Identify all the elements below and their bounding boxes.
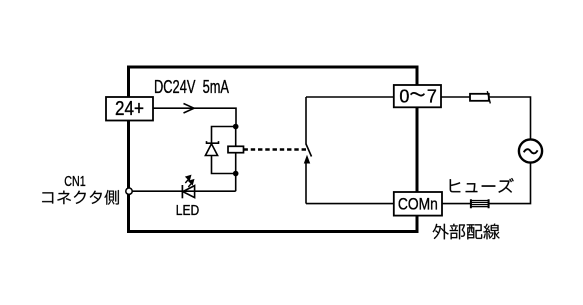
wire: inner loop bottom bbox=[306, 203, 394, 205]
wire: inner loop top bbox=[306, 96, 394, 98]
AC source PS bbox=[519, 139, 542, 162]
wire: load to AC source bbox=[489, 97, 531, 139]
wire: photocoupler branch vertical bbox=[235, 127, 237, 192]
LED light arrows bbox=[185, 176, 193, 187]
wire: 24+ to corner bbox=[153, 108, 236, 126]
load box bbox=[470, 94, 489, 101]
wire: AC source to fuse bbox=[489, 163, 531, 204]
terminal box 24+ bbox=[106, 97, 153, 121]
LED D2 bbox=[182, 185, 194, 198]
label external wiring bbox=[433, 224, 500, 240]
label fuse bbox=[450, 178, 514, 193]
wave dash in 0~7 bbox=[410, 92, 424, 96]
svg-text:DC24V 5mA: DC24V 5mA bbox=[154, 77, 229, 97]
svg-text:CN1: CN1 bbox=[64, 173, 86, 190]
photo-transistor switch bbox=[305, 97, 312, 204]
node: top junction bbox=[233, 124, 239, 130]
main unit box bbox=[129, 67, 418, 232]
wire: fuse to COMn bbox=[442, 203, 471, 205]
node: CN1 terminal circle bbox=[126, 188, 132, 194]
terminal box COMn bbox=[394, 192, 442, 216]
wire: diode parallel branch bbox=[212, 127, 236, 174]
svg-text:7: 7 bbox=[427, 87, 437, 107]
svg-text:0: 0 bbox=[399, 87, 409, 107]
node: bottom junction bbox=[233, 171, 239, 177]
svg-text:LED: LED bbox=[176, 202, 200, 219]
svg-text:COMn: COMn bbox=[398, 195, 438, 214]
wire: LED row bbox=[129, 190, 236, 192]
photocoupler LED box bbox=[228, 146, 244, 152]
terminal box 0~7 bbox=[394, 85, 441, 107]
diode D1 (surge absorber) bbox=[205, 141, 218, 155]
fuse F1 bbox=[471, 199, 489, 208]
wire: output to load bbox=[441, 96, 470, 98]
arrow on 24V wire bbox=[184, 104, 195, 114]
load slash bbox=[487, 91, 490, 103]
dashed optical link bbox=[244, 148, 307, 150]
label connector side bbox=[42, 190, 119, 205]
svg-text:24+: 24+ bbox=[115, 98, 144, 120]
